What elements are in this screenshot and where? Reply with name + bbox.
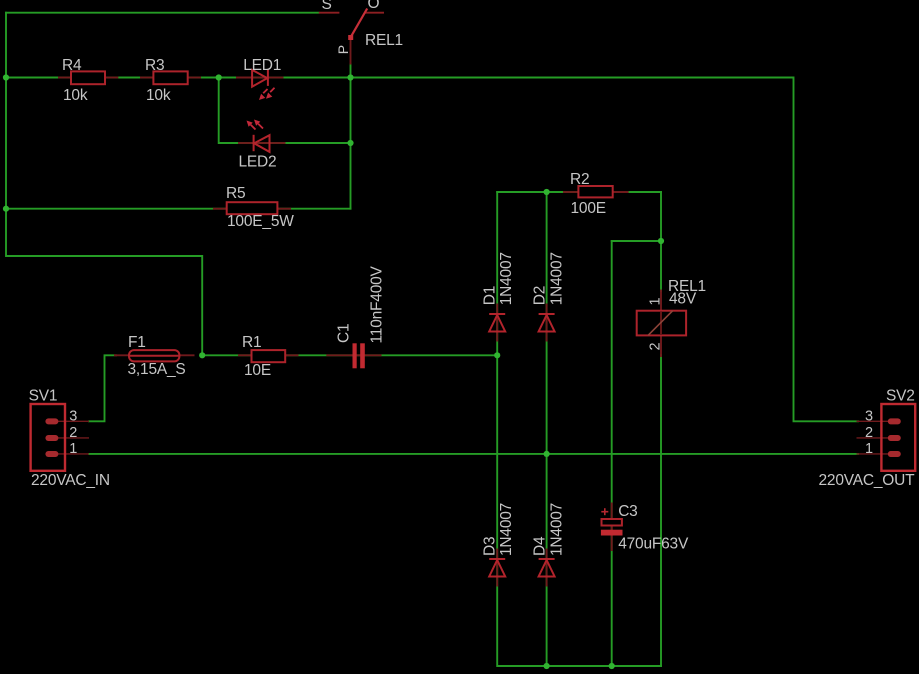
svg-text:R1: R1: [242, 334, 261, 351]
svg-text:D2: D2: [531, 286, 548, 305]
svg-text:LED2: LED2: [239, 154, 277, 171]
svg-text:2: 2: [69, 425, 77, 441]
svg-text:2: 2: [648, 342, 664, 350]
svg-text:10E: 10E: [244, 362, 271, 379]
svg-text:SV1: SV1: [29, 388, 58, 405]
svg-text:2: 2: [865, 425, 873, 441]
svg-text:SV2: SV2: [886, 388, 915, 405]
svg-text:1N4007: 1N4007: [498, 503, 515, 556]
svg-text:D3: D3: [481, 537, 498, 556]
svg-text:C1: C1: [336, 324, 353, 343]
svg-text:220VAC_OUT: 220VAC_OUT: [819, 472, 916, 489]
svg-text:D1: D1: [481, 286, 498, 305]
svg-text:LED1: LED1: [243, 57, 281, 74]
svg-text:3,15A_S: 3,15A_S: [128, 361, 186, 378]
svg-text:S: S: [322, 0, 332, 13]
svg-text:1: 1: [865, 441, 873, 457]
svg-text:470uF63V: 470uF63V: [618, 536, 689, 553]
svg-text:3: 3: [69, 408, 77, 424]
svg-text:110nF400V: 110nF400V: [369, 265, 386, 343]
svg-text:1N4007: 1N4007: [548, 252, 565, 305]
svg-text:10k: 10k: [146, 87, 171, 104]
svg-text:10k: 10k: [63, 87, 88, 104]
svg-text:48V: 48V: [669, 291, 697, 308]
svg-text:220VAC_IN: 220VAC_IN: [31, 472, 110, 489]
svg-text:R2: R2: [570, 171, 589, 188]
svg-text:1: 1: [648, 297, 664, 305]
svg-text:R4: R4: [62, 57, 82, 74]
svg-text:100E: 100E: [571, 200, 606, 217]
svg-text:1: 1: [69, 441, 77, 457]
svg-text:O: O: [368, 0, 380, 12]
svg-text:D4: D4: [531, 536, 548, 556]
svg-text:R5: R5: [226, 185, 245, 202]
svg-text:3: 3: [865, 408, 873, 424]
svg-text:1N4007: 1N4007: [498, 252, 515, 305]
svg-text:100E_5W: 100E_5W: [227, 213, 294, 230]
svg-text:C3: C3: [618, 503, 637, 520]
svg-text:1N4007: 1N4007: [548, 503, 565, 556]
svg-text:F1: F1: [128, 334, 146, 351]
svg-text:P: P: [335, 45, 351, 54]
svg-text:R3: R3: [145, 57, 164, 74]
svg-text:REL1: REL1: [365, 32, 403, 49]
